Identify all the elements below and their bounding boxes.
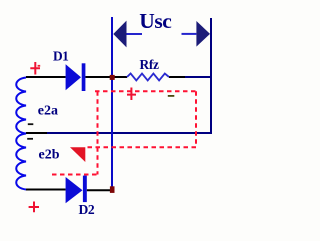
svg-text:e2b: e2b (39, 147, 60, 162)
svg-text:Rfz: Rfz (140, 57, 160, 72)
svg-text:Usc: Usc (139, 9, 171, 33)
svg-text:D2: D2 (79, 202, 95, 217)
svg-text:e2a: e2a (38, 103, 58, 118)
svg-text:D1: D1 (53, 48, 68, 63)
